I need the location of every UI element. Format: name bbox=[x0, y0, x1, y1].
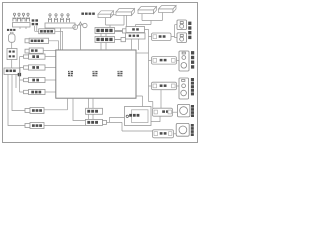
label box C bbox=[25, 49, 29, 53]
monitor speaker 1 bbox=[177, 20, 187, 30]
wire: mixer bottom to recorder device bbox=[136, 96, 143, 107]
wire: left feed bus for middle rows bbox=[20, 57, 24, 92]
wire: bottom-left row2 to middle box2 bbox=[44, 125, 86, 127]
recorder device outer box bbox=[125, 107, 152, 126]
speaker row2 (two-way box) bbox=[179, 51, 189, 71]
bottom-left row 1: cap + EQ box bbox=[25, 108, 44, 114]
compressor box1 with knobs bbox=[126, 27, 145, 33]
speaker row4 (single driver) bbox=[177, 104, 190, 117]
wire: box C to mixer left corner bbox=[43, 50, 56, 52]
left-middle row 3: cap + box + wire to mixer bbox=[24, 77, 56, 82]
wire: amp4 to speaker4 bbox=[173, 111, 178, 113]
wire: mic group1 to box A bbox=[20, 26, 39, 32]
frame border bbox=[3, 3, 198, 143]
microphone symbols group 2 bbox=[48, 14, 69, 22]
wire: amp4 down to recorder right edge bbox=[151, 116, 160, 121]
wire: amp3 to speaker3 bbox=[177, 85, 180, 87]
wire: mic icon down to preamp box bbox=[11, 42, 13, 48]
amplifier amp2 bbox=[152, 57, 177, 65]
vertical label: speakers row5 bbox=[191, 124, 194, 136]
bottom-left row 2: cap + EQ box bbox=[25, 123, 44, 129]
cap on middle box2 right bbox=[103, 120, 107, 124]
wire: distributor down-left outputs bbox=[8, 75, 25, 126]
speaker row3 (two-way box) bbox=[179, 78, 189, 99]
wire: deck d1-d2 link bbox=[111, 14, 117, 16]
deck d1 (3D box) bbox=[98, 11, 114, 18]
wire: bottom-left row1 to mixer bottom bbox=[44, 98, 68, 110]
wire: amp2 to speaker2 bbox=[177, 59, 180, 61]
wire: R2 right cap toward compressor box2 bbox=[115, 39, 122, 41]
middle-bottom box 1 bbox=[86, 108, 103, 114]
recorder device inner box bbox=[132, 110, 149, 123]
wireless receiver box R2 bbox=[95, 37, 115, 43]
wire: amp3 down to amp4 bbox=[160, 90, 162, 108]
deck d2 (3D box) bbox=[116, 9, 135, 16]
monitor speaker 2 bbox=[177, 33, 187, 43]
amplifier amp3 bbox=[152, 82, 177, 90]
wires: compressor down to mixer top bbox=[132, 39, 139, 50]
wire: R1 right cap to compressor bbox=[115, 30, 123, 31]
left column: preamp box bbox=[7, 49, 17, 60]
right distribution bus bbox=[149, 37, 153, 109]
wireless receiver box R1 bbox=[95, 28, 115, 34]
wire: mixer right to bus bbox=[136, 52, 149, 54]
compressor box2 bbox=[126, 33, 146, 39]
amplifier amp5 bbox=[153, 130, 174, 138]
wire: box A to mixer top bbox=[55, 31, 63, 50]
label text between mic groups bbox=[32, 19, 38, 25]
left column: microphone icon bbox=[11, 32, 13, 34]
vertical label: main speakers bbox=[191, 51, 194, 69]
wire: mixer bottom to middle box2 left bbox=[73, 98, 86, 120]
left column: record player label text bbox=[7, 29, 15, 31]
wires: receivers down to mixer top bbox=[101, 34, 106, 51]
label box B with left cap bbox=[25, 39, 29, 43]
deck d4 (3D box) bbox=[159, 6, 177, 13]
wired mic group 2 base box bbox=[45, 23, 75, 28]
recorder label dark bbox=[126, 115, 128, 117]
microphone symbols group 1 bbox=[13, 13, 30, 21]
deck d3 (3D box) bbox=[138, 7, 157, 14]
vertical label: monitor speakers bbox=[188, 22, 191, 40]
wire: amp1 to monitor speakers split bbox=[171, 25, 177, 38]
wire: amp5 to speaker5 bbox=[174, 133, 177, 135]
vertical label: speakers row4 bbox=[191, 105, 194, 117]
wired mic group 1 base box bbox=[13, 23, 31, 28]
wire: middle box2 to recorder device bbox=[107, 118, 126, 123]
mixer console box bbox=[56, 50, 136, 98]
wire: decks d1,d2 down to receiver R1 bbox=[106, 15, 125, 27]
wire: decks d3,d4 down to compressor bbox=[136, 13, 163, 27]
top label above antenna bbox=[81, 13, 94, 15]
wire: box B to mixer bbox=[49, 41, 59, 50]
wire: preamp down to distributor bbox=[11, 60, 13, 69]
wire: mic group2 to mixer top bbox=[60, 28, 62, 50]
junction node square bbox=[18, 73, 21, 76]
label box A bbox=[39, 29, 55, 34]
mixer text 调 音 台 bbox=[68, 71, 123, 76]
speaker row5 (single driver) bbox=[176, 123, 189, 136]
wires: mixer bottom to middle boxes bbox=[89, 98, 94, 119]
vertical label: speakers row3 bbox=[191, 78, 194, 95]
wire: compressor to amp1 bbox=[145, 30, 149, 37]
amplifier amp1 bbox=[152, 33, 172, 41]
antenna for wireless mics bbox=[73, 22, 87, 50]
left column: distributor wide box bbox=[4, 68, 20, 75]
left-middle row 2: cap + box + wire to mixer bbox=[24, 65, 56, 70]
wire: feed to amp5 bbox=[110, 122, 153, 131]
wire: deck d2 down to compressor bbox=[126, 15, 128, 26]
middle-bottom box 2 bbox=[86, 119, 103, 125]
left-middle row 4: cap + box + wire to mixer bbox=[24, 89, 56, 94]
left-middle row 1: cap + effects box + wire to mixer bbox=[24, 54, 56, 59]
amplifier amp4 bbox=[153, 108, 173, 116]
